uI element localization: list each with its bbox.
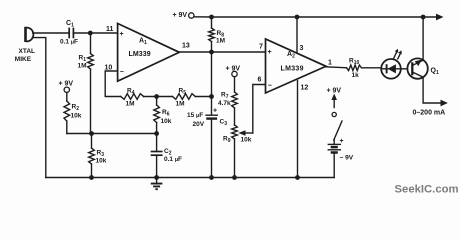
resistor R4 1M [121, 88, 144, 108]
capacitor C1 0.1uF [60, 20, 78, 46]
node junction C1/R1/pin11 [88, 31, 93, 36]
svg-text:+ 9V: + 9V [173, 12, 188, 19]
svg-text:−: − [120, 69, 124, 76]
wire R10 to LED [362, 67, 382, 69]
pin number 1 output wire [326, 67, 347, 68]
wire C1 to pin 11 of A1 [73, 32, 117, 34]
svg-text:0.1 µF: 0.1 µF [164, 156, 182, 163]
svg-text:+: + [213, 108, 217, 115]
node junction pin12 bottom rail [295, 175, 300, 180]
svg-text:MIKE: MIKE [15, 56, 32, 63]
svg-text:3: 3 [300, 45, 304, 52]
svg-text:10k: 10k [96, 158, 107, 165]
svg-text:0–200 mA: 0–200 mA [413, 109, 446, 116]
node junction C2 bottom / ground [154, 175, 159, 180]
op-amp comparator A1 LM339 [118, 23, 180, 81]
node junction R9 bottom rail [232, 175, 237, 180]
svg-text:15 µF: 15 µF [187, 112, 203, 119]
+9V supply terminal left [59, 81, 74, 93]
svg-text:SeekIC.com: SeekIC.com [395, 184, 459, 196]
node junction C3 bottom rail [209, 175, 214, 180]
svg-text:10k: 10k [71, 113, 82, 120]
svg-text:+: + [268, 49, 272, 56]
wire mike bottom terminal down left side [32, 38, 46, 178]
svg-text:20V: 20V [193, 121, 205, 128]
wiper arrow of R9 [245, 132, 253, 134]
svg-text:+ 9V: + 9V [327, 88, 342, 95]
capacitor C3 15uF 20V electrolytic [187, 108, 227, 178]
pin number 12 and wire to bottom rail [297, 81, 299, 178]
wire A1 output to A2 pin 7 [179, 51, 265, 53]
node junction R8 bottom on signal line [209, 50, 214, 55]
resistor R5 1M [173, 88, 196, 108]
svg-text:11: 11 [106, 26, 114, 33]
svg-text:1k: 1k [352, 72, 360, 79]
wire R5 to output node vertical [195, 96, 211, 98]
node junction Q1 emitter top rail [421, 15, 426, 20]
op-amp comparator A2 LM339 [266, 39, 327, 93]
capacitor C2 0.1uF [152, 134, 183, 178]
svg-text:+ 9V: + 9V [59, 81, 74, 88]
wire pin10 of A1 to feedback line [105, 71, 121, 97]
svg-text:10k: 10k [161, 118, 172, 125]
wire mike top terminal to C1 [33, 32, 69, 34]
ground symbol [151, 178, 163, 190]
transistor Q1 [407, 58, 439, 78]
node junction R6/C2/divider line [154, 131, 159, 136]
+9V supply terminal over R7 [226, 66, 241, 77]
resistor R7 4.7k [218, 77, 237, 108]
bottom rail wire [46, 177, 334, 179]
svg-text:0.1 µF: 0.1 µF [60, 39, 78, 46]
svg-text:+: + [120, 31, 124, 38]
wire LED to Q1 base [401, 68, 412, 70]
resistor R1 1M [78, 33, 94, 134]
wire output node down to C3 [211, 52, 213, 115]
wire Q1 collector to output arrow [423, 77, 441, 103]
svg-text:4.7k: 4.7k [218, 100, 231, 107]
svg-text:XTAL: XTAL [19, 48, 36, 55]
switch S1 [334, 121, 342, 140]
node junction pin3 top rail [295, 15, 300, 20]
resistor R8 1M [209, 17, 225, 52]
svg-text:6: 6 [258, 77, 262, 84]
resistor R2 10k [64, 93, 82, 134]
svg-text:LM339: LM339 [129, 51, 151, 58]
node junction R3 top [89, 131, 94, 136]
LED indicator [381, 49, 402, 79]
node junction R3 bottom rail [89, 175, 94, 180]
svg-text:LM339: LM339 [281, 66, 304, 73]
+9V supply terminal over switch [327, 88, 342, 117]
svg-text:− 9V: − 9V [340, 155, 354, 162]
+9V supply terminal top rail [173, 12, 195, 19]
wire R4 to R5 [144, 96, 173, 98]
svg-text:7: 7 [259, 44, 263, 51]
crystal microphone XTAL MIKE [15, 27, 35, 63]
svg-text:−: − [268, 83, 272, 90]
wire Q1 emitter to top rail [422, 17, 424, 60]
svg-text:1M: 1M [78, 63, 87, 70]
top supply rail wire with arrow [194, 16, 437, 18]
node junction R4/R5/R6 [154, 94, 159, 99]
svg-text:1M: 1M [126, 100, 135, 107]
svg-text:13: 13 [182, 43, 190, 50]
resistor R6 10k [154, 97, 172, 134]
battery B1 9V [328, 138, 354, 178]
svg-text:12: 12 [301, 85, 309, 92]
resistor R3 10k [89, 134, 107, 178]
LED emission arrows [394, 52, 397, 58]
svg-text:1M: 1M [216, 38, 225, 45]
svg-text:+: + [340, 138, 344, 145]
resistor R10 1k [347, 58, 362, 80]
potentiometer R9 10k [223, 85, 266, 178]
node junction feedback/output vertical [209, 94, 214, 99]
wire divider line R2 to R6/C2 node [67, 133, 157, 135]
node junction R8 top [209, 15, 214, 20]
svg-text:1M: 1M [176, 100, 185, 107]
pin number 3 and wire to rail [296, 17, 298, 53]
svg-text:10k: 10k [241, 137, 252, 144]
svg-text:1: 1 [328, 60, 332, 67]
